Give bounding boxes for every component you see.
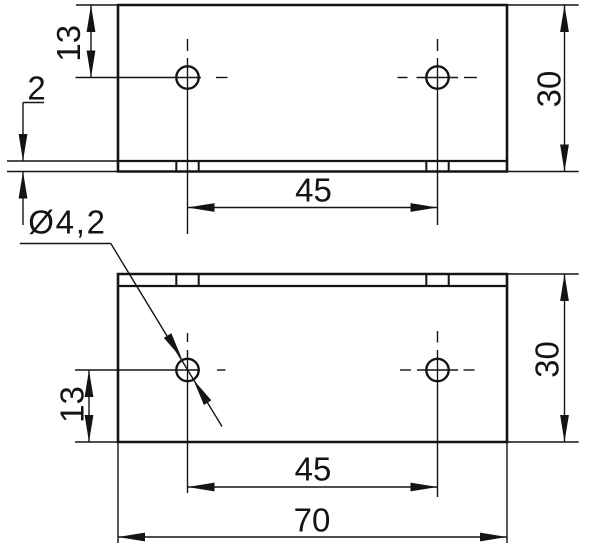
arrow right (45 bottom) <box>411 483 438 492</box>
top view strip hole-edge tick left pair <box>176 161 198 172</box>
centerline H1 vertical <box>187 39 189 234</box>
extension line strip top left <box>7 160 118 162</box>
svg-text:45: 45 <box>295 172 332 209</box>
hole H3 (bottom view left) <box>176 359 198 381</box>
dimension 30 (top view) line <box>564 5 566 172</box>
arrow up (30 top) <box>560 5 569 32</box>
svg-text:70: 70 <box>294 502 331 539</box>
arrow down (30 top) <box>560 145 569 172</box>
centerline H2 horizontal <box>398 77 478 79</box>
arrow right (70) <box>480 533 507 542</box>
arrow up (30 bottom) <box>560 274 569 301</box>
leader arrow lower (points to hole H3 edge) <box>193 380 211 405</box>
arrow left (45 bottom) <box>188 483 215 492</box>
arrow down (30 bottom) <box>560 415 569 442</box>
arrow left (70) <box>118 533 145 542</box>
dimension 13 (top view) line <box>90 5 92 78</box>
top view bend line (strip top edge) <box>118 160 507 162</box>
arrow left (45 top) <box>188 203 215 212</box>
bottom view outline <box>118 274 507 442</box>
top view strip hole-edge tick right pair <box>426 161 448 172</box>
arrow down (13 top) <box>87 51 96 78</box>
leader diagonal (diameter callout) <box>111 244 222 427</box>
dimension 30 (top view) extension top <box>507 4 579 6</box>
bottom view strip hole-edge tick left pair <box>176 274 198 286</box>
hole H1 (top view left) <box>176 66 198 88</box>
centerline H1 horizontal <box>76 77 228 79</box>
dimension 45 (bottom view) line <box>188 486 438 488</box>
hole H4 (bottom view right) <box>426 359 448 381</box>
dimension 45 (top view) line <box>188 207 438 209</box>
top view outline <box>118 5 507 172</box>
dimension 2 line upper <box>22 103 24 162</box>
centerline H4 horizontal <box>400 369 475 371</box>
svg-text:30: 30 <box>531 71 568 108</box>
centerline H3 vertical <box>187 333 189 493</box>
dimension 30 (top view) extension bottom <box>507 171 579 173</box>
svg-text:45: 45 <box>295 451 332 488</box>
arrow up (13 bottom) <box>85 370 94 397</box>
arrow down (13 bottom) <box>85 415 94 442</box>
dimension 30 (bottom view) extension bottom <box>507 441 579 443</box>
arrow down (2) <box>19 134 28 161</box>
centerline H4 vertical <box>437 331 439 497</box>
centerline H3 horizontal <box>75 369 226 371</box>
dimension 70 extension right <box>506 442 508 543</box>
svg-text:Ø4,2: Ø4,2 <box>28 204 106 241</box>
svg-text:13: 13 <box>50 25 87 62</box>
dimension 2 shelf line <box>23 102 44 104</box>
arrow up (13 top) <box>87 5 96 32</box>
centerline H2 vertical <box>437 39 439 225</box>
leader arrow upper (points to hole H3 edge) <box>164 333 182 358</box>
bottom view bend line (strip bottom edge) <box>118 285 507 287</box>
svg-text:30: 30 <box>529 341 566 378</box>
hole H2 (top view right) <box>426 66 448 88</box>
extension line strip bottom left <box>7 171 118 173</box>
arrow up (2) <box>19 172 28 199</box>
dimension 13 (bottom view) extension bottom <box>75 441 118 443</box>
svg-text:2: 2 <box>27 70 45 107</box>
dimension 13 (bottom view) line <box>88 370 90 442</box>
leader shelf (diameter callout) <box>20 243 111 245</box>
dimension 70 extension left <box>117 442 119 543</box>
svg-text:13: 13 <box>54 386 91 423</box>
dimension 30 (bottom view) line <box>564 274 566 442</box>
dimension 2 line lower <box>22 172 24 226</box>
dimension 30 (bottom view) extension top <box>507 273 579 275</box>
arrow right (45 top) <box>411 203 438 212</box>
dimension 70 line <box>118 536 507 538</box>
bottom view strip hole-edge tick right pair <box>426 274 448 286</box>
dimension 13 (top view) extension line top <box>76 4 118 6</box>
